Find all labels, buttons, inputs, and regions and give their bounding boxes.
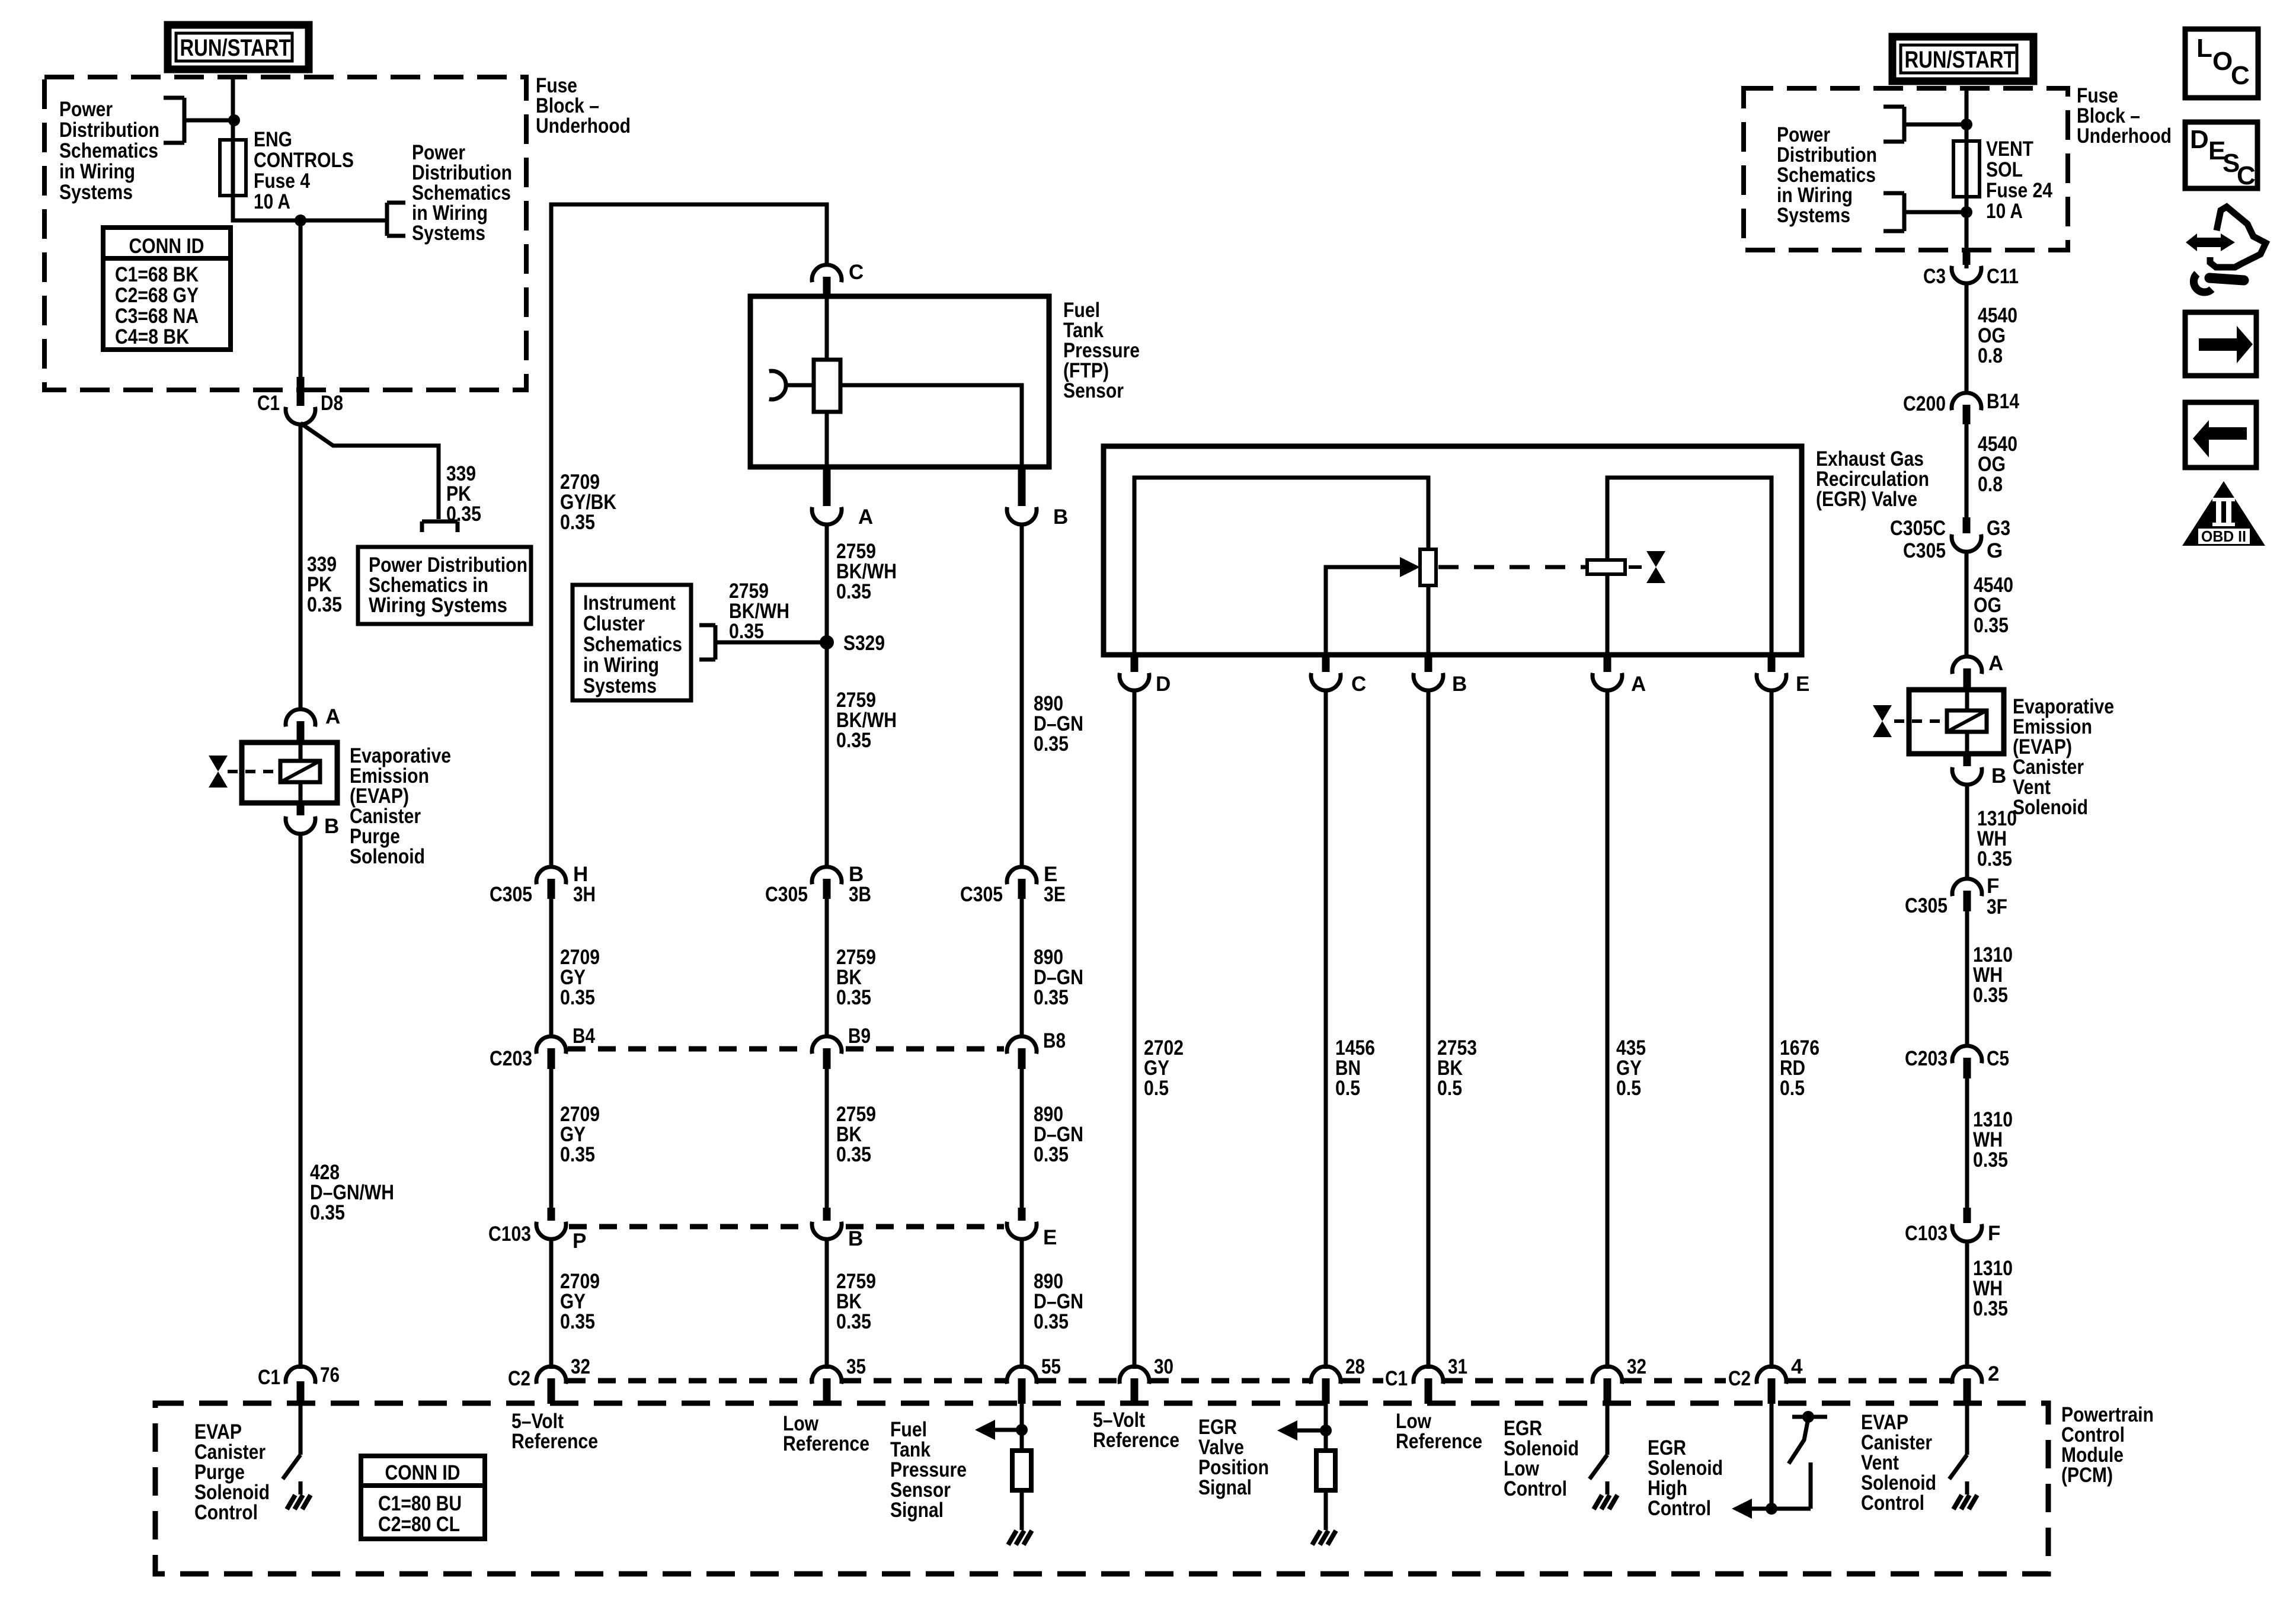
icon DESC box — [2185, 122, 2257, 190]
wire vent fuse to C3/C11 — [1965, 197, 1969, 268]
svg-text:Power: Power — [59, 98, 113, 121]
svg-text:3H: 3H — [573, 883, 596, 906]
wire 2759 BK C305 to C203 — [825, 899, 829, 1038]
PCM FTP signal network (pin 55) — [975, 1404, 1032, 1545]
ground purge control driver — [287, 1481, 311, 1509]
connector B purge solenoid — [286, 803, 339, 838]
svg-text:E: E — [1043, 1226, 1057, 1249]
fuse ENG CONTROLS Fuse 4 — [220, 140, 246, 196]
wire 1310 WH to C305F — [1965, 784, 1969, 880]
svg-text:Reference: Reference — [783, 1432, 869, 1455]
svg-text:0.5: 0.5 — [1335, 1077, 1360, 1100]
svg-text:Control: Control — [1861, 1491, 1924, 1515]
svg-text:in Wiring: in Wiring — [583, 654, 659, 677]
svg-text:35: 35 — [846, 1355, 866, 1378]
svg-text:P: P — [573, 1230, 586, 1253]
connector C200/B14 — [1903, 390, 2019, 424]
label 1310 WH 0.35 (vent-C305) — [1977, 807, 2017, 870]
wire 2709 GY/BK fuse block to FTP and C305 — [551, 204, 827, 868]
svg-text:Schematics: Schematics — [583, 633, 682, 656]
svg-text:RUN/START: RUN/START — [1905, 47, 2016, 73]
svg-text:0.35: 0.35 — [1034, 1310, 1069, 1333]
label 428 D-GN/WH 0.35 — [310, 1161, 394, 1224]
svg-text:Systems: Systems — [412, 222, 485, 245]
connector C203 B8 — [1007, 1029, 1066, 1069]
label Power Distribution Schematics in Wiring Systems (left fuse block) — [59, 98, 159, 204]
svg-text:3B: 3B — [849, 883, 871, 906]
svg-text:CONN ID: CONN ID — [129, 235, 204, 258]
valve symbol purge solenoid — [209, 756, 228, 788]
svg-text:S329: S329 — [843, 632, 885, 655]
connector C2/32 at PCM — [508, 1355, 590, 1404]
svg-text:30: 30 — [1154, 1355, 1173, 1378]
svg-text:0.8: 0.8 — [1978, 473, 2003, 496]
svg-text:D: D — [2190, 125, 2209, 154]
connector 28 at PCM — [1311, 1355, 1365, 1404]
PCM EGR position network (pin 28) — [1277, 1404, 1336, 1545]
CONN ID table (fuse block) — [103, 228, 231, 350]
label 2759 BK 0.35 (C305-C203) — [836, 946, 876, 1009]
svg-text:Underhood: Underhood — [536, 114, 631, 137]
svg-text:ENG: ENG — [254, 128, 292, 151]
valve symbol vent solenoid — [1873, 705, 1892, 737]
svg-text:SOL: SOL — [1986, 158, 2023, 181]
svg-text:C: C — [2231, 61, 2250, 90]
svg-text:C305: C305 — [960, 883, 1003, 906]
svg-text:CONTROLS: CONTROLS — [254, 149, 354, 172]
label Power Distribution Schematics in Wiring Systems (right fuse block) — [1777, 123, 1877, 227]
label EGR Solenoid Low Control — [1504, 1417, 1579, 1500]
PCM dashed box — [155, 1403, 2048, 1574]
svg-text:B9: B9 — [848, 1025, 871, 1048]
label 339 PK 0.35 — [307, 553, 342, 616]
label 2702 GY 0.5 — [1144, 1036, 1184, 1100]
label 4540 OG 0.35 — [1974, 574, 2013, 637]
label EGR Solenoid High Control — [1648, 1436, 1723, 1520]
svg-text:in Wiring: in Wiring — [59, 160, 135, 183]
svg-text:F: F — [1988, 1222, 2000, 1245]
svg-text:0.35: 0.35 — [1034, 732, 1069, 756]
svg-text:76: 76 — [320, 1363, 340, 1387]
svg-text:0.35: 0.35 — [1034, 1143, 1069, 1166]
svg-text:Solenoid: Solenoid — [350, 845, 425, 868]
wire 2702 GY EGR-D to PCM — [1133, 690, 1137, 1369]
svg-text:C: C — [849, 261, 864, 284]
label 2759 BK/WH 0.35 (below splice) — [836, 689, 897, 752]
RUN/START ignition feed box (right) — [1892, 37, 2033, 81]
svg-text:C305: C305 — [1903, 539, 1946, 562]
bracket power distribution reference box — [422, 521, 458, 532]
svg-text:F: F — [1987, 875, 1999, 898]
wire EGR pin D to potentiometer — [1134, 478, 1428, 655]
dashed tie line C203 row — [568, 1046, 1004, 1052]
svg-text:0.8: 0.8 — [1978, 344, 2003, 367]
svg-text:B: B — [1053, 505, 1068, 529]
ground EGR high control driver — [1594, 1481, 1617, 1509]
EGR potentiometer — [1420, 549, 1436, 585]
label 2753 BK 0.5 — [1437, 1036, 1477, 1100]
wire 339 PK to purge solenoid — [299, 423, 303, 711]
svg-text:0.35: 0.35 — [1973, 984, 2008, 1007]
connector A purge solenoid — [286, 705, 340, 742]
svg-text:G: G — [1987, 539, 2003, 562]
svg-text:E: E — [1796, 673, 1809, 696]
svg-text:Control: Control — [1648, 1497, 1711, 1520]
svg-text:C2=68 GY: C2=68 GY — [115, 284, 199, 307]
svg-text:Signal: Signal — [1198, 1476, 1252, 1499]
label 2709 GY 0.35 (C305-C203) — [560, 946, 600, 1009]
label 1310 WH 0.35 (C103-PCM) — [1973, 1257, 2013, 1320]
svg-text:0.35: 0.35 — [307, 593, 342, 616]
wire RUN/START to fuse — [231, 77, 235, 142]
fuse block underhood dashed box (right) — [1744, 88, 2068, 250]
label 2709 GY 0.35 (C103-PCM) — [560, 1270, 600, 1333]
label EVAP Canister Vent Solenoid Control — [1861, 1411, 1936, 1515]
svg-text:Fuse 24: Fuse 24 — [1986, 179, 2052, 202]
svg-text:0.35: 0.35 — [836, 580, 871, 603]
connector C1/D8 — [257, 377, 343, 424]
connector C203 B9 — [812, 1025, 871, 1069]
svg-text:0.35: 0.35 — [1977, 847, 2012, 870]
connector C203 C5 — [1905, 1046, 2009, 1078]
label Fuel Tank Pressure Sensor Signal — [890, 1418, 967, 1522]
connector B FTP sensor — [1007, 469, 1068, 529]
svg-text:Reference: Reference — [1396, 1430, 1482, 1453]
label Low Reference (pin 35) — [783, 1412, 869, 1455]
wire bracket to fuse feed — [184, 119, 234, 123]
wire 890 D-GN FTP-B to C305 — [1020, 524, 1024, 868]
label EVAP Canister Purge Solenoid Control — [194, 1420, 270, 1524]
bracket power distribution bottom (right) — [1884, 193, 1904, 231]
EGR wiper arrow from pin C — [1326, 557, 1420, 655]
dashed tie line C103 row — [569, 1224, 1004, 1230]
bracket instrument cluster — [699, 625, 715, 660]
svg-text:Distribution: Distribution — [59, 119, 159, 142]
CONN ID table (PCM) — [361, 1456, 485, 1539]
icon back arrow box — [2185, 402, 2256, 468]
svg-text:L: L — [2196, 34, 2212, 63]
label 2759 BK 0.35 (C203-C103) — [836, 1103, 876, 1166]
svg-text:B4: B4 — [573, 1025, 595, 1048]
junction dot vent fuse feed — [1961, 119, 1972, 130]
svg-text:C203: C203 — [1905, 1047, 1948, 1070]
label 435 GY 0.5 — [1616, 1036, 1646, 1100]
connector 35 at PCM — [812, 1355, 866, 1404]
svg-text:C305: C305 — [765, 883, 808, 906]
svg-text:Solenoid: Solenoid — [2013, 796, 2088, 819]
label 339 PK 0.35 (branch) — [446, 462, 481, 526]
PCM vent solenoid driver network (pin 4) — [1732, 1404, 1827, 1519]
icon OBD II triangle — [2182, 481, 2265, 546]
fuse VENT SOL Fuse 24 — [1953, 141, 1980, 197]
wire potentiometer to pin B — [1427, 585, 1431, 655]
dashed link potentiometer to solenoid — [1438, 565, 1586, 569]
wire 428 D-GN/WH to PCM — [299, 833, 303, 1369]
svg-text:C203: C203 — [490, 1047, 532, 1070]
wire 2709 GY C305 to C203 — [549, 899, 554, 1038]
label Fuel Tank Pressure (FTP) Sensor — [1063, 299, 1140, 402]
svg-text:VENT: VENT — [1986, 137, 2033, 161]
svg-text:Reference: Reference — [511, 1430, 598, 1453]
wire 890 D-GN C203 to C103 — [1020, 1069, 1024, 1208]
svg-text:Sensor: Sensor — [1063, 379, 1124, 402]
label 890 D-GN 0.35 (C103-PCM) — [1034, 1270, 1083, 1333]
label 1676 RD 0.5 — [1780, 1036, 1819, 1100]
svg-text:C200: C200 — [1903, 392, 1946, 415]
fuel tank pressure sensor box — [750, 296, 1049, 467]
svg-text:D: D — [1156, 673, 1171, 696]
ground vent control driver — [1953, 1481, 1977, 1509]
EGR valve box — [1104, 446, 1802, 655]
wire 2709 GY C203 to C103 — [549, 1069, 554, 1208]
svg-text:C305: C305 — [1905, 894, 1948, 917]
wire 4540 OG to C200 — [1965, 283, 1969, 395]
svg-text:C: C — [1351, 673, 1366, 696]
connector 30 at PCM — [1120, 1355, 1173, 1404]
svg-text:A: A — [1631, 673, 1646, 696]
svg-text:Instrument: Instrument — [583, 591, 676, 614]
svg-text:B: B — [1452, 673, 1467, 696]
svg-text:B: B — [324, 815, 339, 838]
wire 2753 BK EGR-B to PCM — [1427, 690, 1431, 1369]
connector A FTP sensor — [812, 469, 873, 529]
svg-text:C1: C1 — [1385, 1367, 1408, 1390]
connector C305 H/3H — [490, 863, 596, 906]
wire 1310 WH C203 to C103 — [1965, 1078, 1969, 1210]
svg-text:C103: C103 — [1905, 1222, 1948, 1245]
svg-text:C305: C305 — [490, 883, 532, 906]
label 2759 BK 0.35 (C103-PCM) — [836, 1270, 876, 1333]
svg-text:C1=80 BU: C1=80 BU — [378, 1492, 462, 1515]
label Power Distribution Schematics in Wiring Systems (right of fuse) — [412, 141, 512, 245]
label 890 D-GN 0.35 (C203-C103) — [1034, 1103, 1083, 1166]
svg-text:(PCM): (PCM) — [2061, 1464, 2113, 1487]
svg-text:0.35: 0.35 — [560, 511, 595, 534]
wire instrument cluster to splice — [715, 641, 827, 645]
svg-text:OBD II: OBD II — [2201, 527, 2246, 545]
wire 1676 RD EGR-E to PCM — [1770, 690, 1774, 1369]
label Fuse Block - Underhood (right) — [2077, 84, 2172, 148]
connector C1/31 at PCM — [1385, 1355, 1467, 1404]
junction dot fuse feed — [228, 114, 240, 126]
svg-text:O: O — [2212, 47, 2233, 76]
svg-text:Control: Control — [1504, 1477, 1567, 1500]
svg-text:B14: B14 — [1987, 390, 2019, 413]
icon component locator (arrow and wrench) — [2186, 207, 2266, 292]
svg-text:0.35: 0.35 — [1034, 986, 1069, 1009]
label Powertrain Control Module (PCM) — [2061, 1403, 2154, 1487]
svg-text:B: B — [1991, 764, 2006, 788]
svg-text:0.35: 0.35 — [836, 729, 871, 752]
wire 2759 BK/WH FTP-A to C305 — [825, 524, 829, 868]
wire 4540 OG to C305C — [1965, 424, 1969, 520]
connector C305C/C305 G3/G — [1890, 517, 2010, 562]
label 2709 GY 0.35 (C203-C103) — [560, 1103, 600, 1166]
wire RUN/START to vent fuse — [1965, 88, 1969, 143]
svg-text:A: A — [325, 705, 340, 728]
svg-text:A: A — [858, 505, 873, 529]
label VENT SOL Fuse 24 10 A — [1986, 137, 2052, 223]
connector C FTP sensor — [812, 261, 864, 297]
svg-text:Reference: Reference — [1093, 1429, 1179, 1452]
EVAP canister purge solenoid — [228, 742, 337, 803]
svg-text:2: 2 — [1988, 1362, 1999, 1385]
label EGR Valve Position Signal — [1198, 1416, 1269, 1499]
wire bracket top to vent fuse feed — [1904, 123, 1966, 127]
svg-text:Schematics: Schematics — [59, 139, 158, 162]
svg-text:Systems: Systems — [59, 181, 133, 204]
svg-text:RUN/START: RUN/START — [180, 35, 291, 61]
svg-text:Control: Control — [194, 1501, 258, 1524]
connector C1/76 at PCM — [258, 1363, 340, 1404]
icon LOC box — [2185, 29, 2258, 98]
wire bracket bottom to vent fuse output — [1904, 210, 1966, 215]
connector 2 at PCM — [1952, 1362, 1999, 1404]
label 4540 OG 0.8 (upper) — [1978, 304, 2017, 367]
svg-text:C305C: C305C — [1890, 517, 1946, 540]
connector A vent solenoid — [1952, 652, 2003, 690]
connector C3/C11 — [1923, 250, 2019, 288]
svg-text:4: 4 — [1791, 1355, 1803, 1378]
svg-text:C3=68 NA: C3=68 NA — [115, 305, 199, 328]
junction dot C1/D8 drop — [295, 215, 306, 226]
junction dot vent fuse output — [1961, 206, 1972, 218]
label 5-Volt Reference (pin 32) — [511, 1410, 598, 1453]
wire 2759 BK C103 to PCM — [825, 1238, 829, 1369]
svg-text:C1=68 BK: C1=68 BK — [115, 263, 199, 286]
bracket power distribution tap (left) — [164, 98, 184, 143]
connector 32 at PCM — [1593, 1355, 1646, 1404]
wire 435 GY EGR-A to PCM — [1606, 690, 1610, 1369]
connector C EGR valve — [1311, 655, 1366, 696]
splice S329 — [820, 632, 885, 655]
label 1310 WH 0.35 (C203-C103) — [1973, 1108, 2013, 1172]
connector 55 at PCM — [1007, 1355, 1061, 1404]
FTP sensor internal element — [769, 296, 1022, 467]
label Evaporative Emission (EVAP) Canister Vent Solenoid — [2013, 695, 2114, 819]
svg-text:0.5: 0.5 — [1144, 1077, 1169, 1100]
svg-text:C1: C1 — [258, 1366, 280, 1389]
wire 1456 BN EGR-C to PCM — [1324, 690, 1328, 1369]
PCM switch EGR solenoid high control (pin 32) — [1590, 1404, 1607, 1479]
svg-text:0.35: 0.35 — [560, 1143, 595, 1166]
PCM switch EVAP vent solenoid control (pin 2) — [1949, 1404, 1967, 1479]
svg-text:Underhood: Underhood — [2077, 124, 2172, 148]
svg-text:0.35: 0.35 — [729, 620, 764, 643]
label Evaporative Emission (EVAP) Canister Purge Solenoid — [350, 744, 451, 868]
svg-text:3E: 3E — [1044, 883, 1066, 906]
connector C103 E — [1007, 1208, 1057, 1249]
label Exhaust Gas Recirculation (EGR) Valve — [1816, 447, 1929, 511]
svg-text:32: 32 — [571, 1355, 590, 1378]
fuse block underhood dashed box (left) — [44, 77, 526, 390]
svg-text:0.35: 0.35 — [560, 1310, 595, 1333]
svg-text:C3: C3 — [1923, 265, 1946, 288]
label 2759 BK/WH 0.35 (above splice) — [836, 540, 897, 603]
wire 1310 WH C103 to PCM — [1965, 1241, 1969, 1369]
connector C305 E/3E — [960, 863, 1066, 906]
svg-text:Cluster: Cluster — [583, 612, 645, 635]
power distribution reference box — [358, 547, 531, 624]
svg-text:C11: C11 — [1987, 265, 2019, 288]
svg-text:G3: G3 — [1987, 517, 2010, 540]
connector C305 F/3F — [1905, 875, 2007, 918]
connector A EGR valve — [1593, 655, 1646, 696]
wire junction to connector C1/D8 — [299, 220, 303, 379]
connector B vent solenoid — [1952, 754, 2006, 788]
EGR solenoid coil — [1587, 478, 1771, 655]
svg-text:0.5: 0.5 — [1616, 1077, 1641, 1100]
instrument cluster reference box — [573, 585, 691, 700]
svg-text:0.35: 0.35 — [310, 1201, 345, 1224]
connector E EGR valve — [1757, 655, 1809, 696]
svg-text:0.35: 0.35 — [560, 986, 595, 1009]
svg-text:Systems: Systems — [583, 674, 657, 697]
connector C103 P — [488, 1208, 586, 1253]
PCM switch EVAP purge solenoid control — [283, 1404, 300, 1479]
wire fuse output to C1/D8 drop — [233, 196, 387, 220]
svg-text:C2: C2 — [508, 1367, 530, 1390]
svg-text:C4=8 BK: C4=8 BK — [115, 325, 189, 348]
wire 2709 GY C103 to PCM — [549, 1238, 554, 1369]
connector C103 B — [812, 1208, 863, 1250]
svg-text:0.35: 0.35 — [1973, 1297, 2008, 1320]
connector C2/4 at PCM — [1728, 1355, 1803, 1404]
svg-text:D8: D8 — [321, 392, 343, 415]
svg-text:0.35: 0.35 — [1974, 614, 2009, 637]
svg-text:3F: 3F — [1987, 895, 2007, 918]
svg-text:0.5: 0.5 — [1437, 1077, 1462, 1100]
svg-text:CONN ID: CONN ID — [385, 1461, 461, 1484]
svg-text:B8: B8 — [1043, 1029, 1066, 1052]
icon forward arrow box — [2185, 312, 2256, 376]
wire 2759 BK C203 to C103 — [825, 1069, 829, 1208]
EGR pintle valve symbol — [1629, 551, 1665, 583]
bracket power distribution top (right) — [1884, 107, 1904, 142]
label ENG CONTROLS Fuse 4 10 A — [254, 128, 354, 213]
wire 890 D-GN C103 to PCM — [1020, 1238, 1024, 1369]
wire 339 PK branch to power distribution reference — [300, 423, 439, 519]
svg-text:31: 31 — [1448, 1355, 1467, 1378]
svg-text:0.35: 0.35 — [1973, 1148, 2008, 1172]
connector C203 B4 — [490, 1025, 595, 1070]
label 2759 BK/WH 0.35 (instrument cluster tap) — [729, 580, 789, 643]
connector D EGR valve — [1120, 655, 1171, 696]
wire 4540 OG to vent solenoid — [1965, 551, 1969, 658]
svg-text:C5: C5 — [1987, 1047, 2009, 1070]
svg-text:55: 55 — [1041, 1355, 1061, 1378]
bracket power distribution schematics (right of fuse) — [387, 203, 405, 236]
svg-text:A: A — [1988, 652, 2003, 675]
svg-text:Signal: Signal — [890, 1499, 944, 1522]
label 1456 BN 0.5 — [1335, 1036, 1375, 1100]
svg-text:0.35: 0.35 — [836, 986, 871, 1009]
connector B EGR valve — [1414, 655, 1467, 696]
svg-text:C: C — [2237, 161, 2256, 190]
svg-text:28: 28 — [1345, 1355, 1365, 1378]
label 4540 OG 0.8 (lower) — [1978, 433, 2017, 496]
label Low Reference (pin 31) — [1396, 1410, 1482, 1453]
svg-text:C1: C1 — [257, 392, 280, 415]
dashed tie line PCM connector row — [568, 1378, 1950, 1384]
wire 1310 WH C305 to C203 — [1965, 911, 1969, 1048]
svg-text:0.5: 0.5 — [1780, 1077, 1805, 1100]
connector C103 F (right) — [1905, 1208, 2000, 1245]
EVAP canister vent solenoid — [1894, 690, 2004, 754]
label Fuse Block - Underhood (left) — [536, 74, 631, 137]
svg-text:(EGR) Valve: (EGR) Valve — [1816, 488, 1917, 511]
label 1310 WH 0.35 (C305-C203) — [1973, 943, 2013, 1007]
